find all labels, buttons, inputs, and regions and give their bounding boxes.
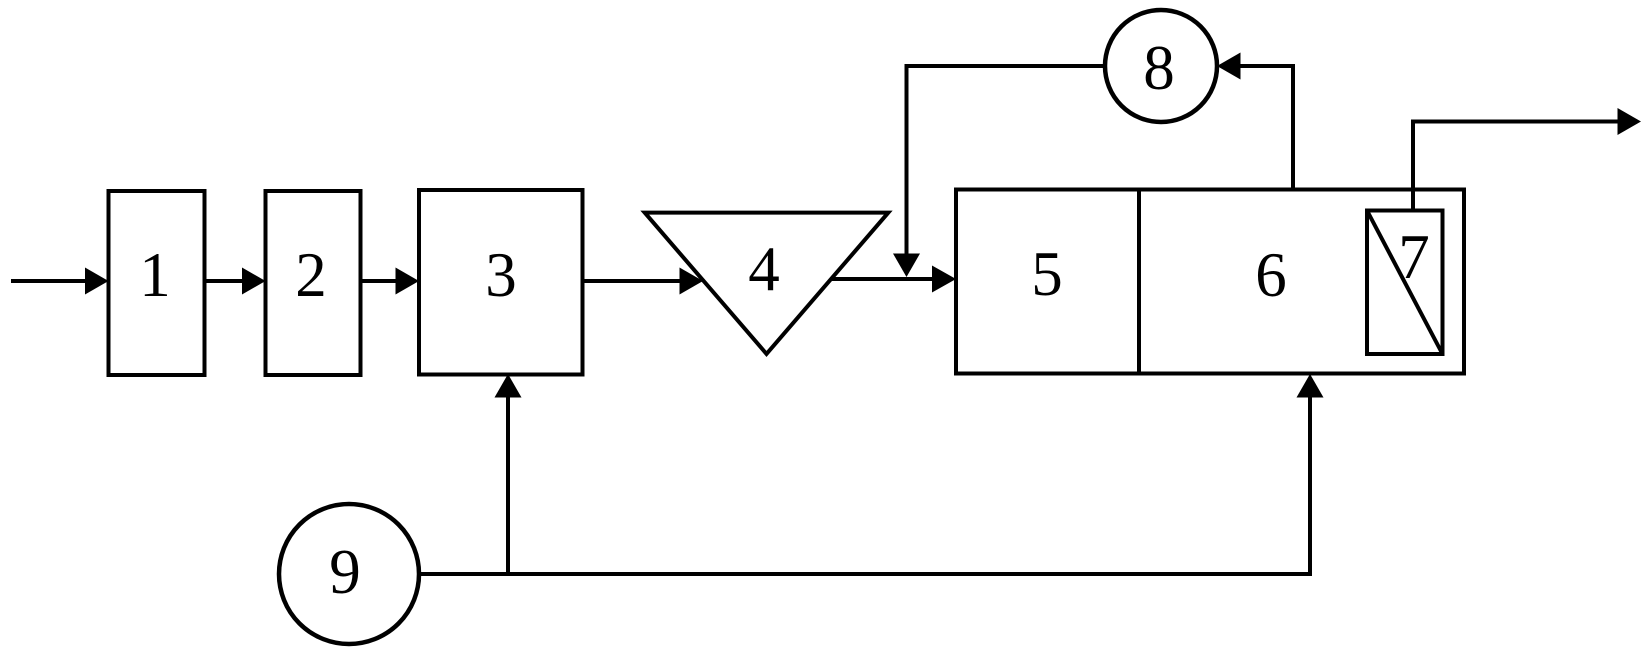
wire: feedback from circle 8 down to summing junction [893,66,1105,277]
svg-text:4: 4 [748,234,780,304]
circle 8 [1105,10,1217,122]
wire: tap from block 6 top up into circle 8 [1217,53,1293,190]
block 7 (with diagonal) [1367,211,1443,355]
svg-text:9: 9 [329,537,361,607]
svg-text:7: 7 [1398,222,1430,292]
svg-text:2: 2 [295,240,327,310]
wire: block 3 to amplifier 4 [583,268,704,295]
wire: amplifier 4 to block 5 [831,266,956,293]
divider between block 5 and block 6 [1137,190,1141,374]
svg-text:5: 5 [1031,239,1063,309]
blocks 5-6 outline [956,190,1464,374]
block 2 [266,191,361,375]
wire: input arrow into block 1 [11,268,109,295]
svg-text:3: 3 [485,240,517,310]
amplifier 4 (inverted triangle) [645,213,889,354]
circle 9 [279,504,419,644]
wire: block 2 to block 3 [361,268,420,295]
wire: branch from 9-line up to block 3 [495,374,522,574]
wire: block 1 to block 2 [205,268,266,295]
wire: circle 9 to block 6 (bottom run and riser) [419,374,1324,574]
block 1 [109,191,205,375]
svg-text:6: 6 [1255,240,1287,310]
block 3 [419,190,583,375]
svg-text:1: 1 [139,240,171,310]
wire: output from block 7 to the right [1413,108,1641,211]
svg-text:8: 8 [1143,33,1175,103]
